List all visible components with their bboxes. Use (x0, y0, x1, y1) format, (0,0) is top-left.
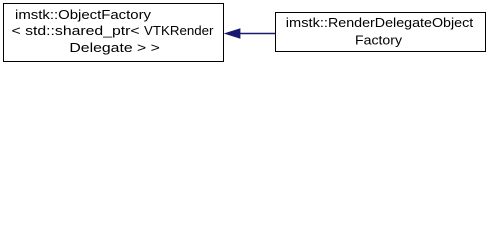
svg-text:imstk::RenderDelegateObject: imstk::RenderDelegateObject (286, 15, 474, 30)
svg-text:Factory: Factory (355, 32, 402, 47)
class box imstk::ObjectFactory (4, 4, 224, 62)
inheritance arrow shaft (wire) (239, 33, 276, 35)
inheritance arrowhead pointing to base class (224, 28, 241, 38)
svg-text:Delegate > >: Delegate > > (69, 40, 160, 55)
class box imstk::RenderDelegateObjectFactory (276, 13, 486, 52)
svg-text:imstk::ObjectFactory: imstk::ObjectFactory (15, 7, 151, 22)
svg-text:< std::shared_ptr< VTKRender: < std::shared_ptr< VTKRender (12, 23, 215, 38)
